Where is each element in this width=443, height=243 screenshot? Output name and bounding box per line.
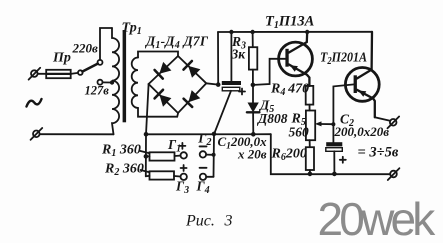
switch contact 127V tap: [98, 80, 103, 85]
node R3 bottom: [251, 83, 256, 88]
resistor R2: [150, 171, 175, 179]
output terminal upper: [388, 117, 400, 129]
fuse Пр: [46, 70, 70, 78]
wiper arrow R5: [315, 121, 334, 126]
wire secondary top to bridge top: [138, 52, 178, 58]
diode bridge frame: [149, 56, 207, 113]
node bridge plus to bus: [144, 132, 149, 137]
plus sign G3: [181, 165, 187, 171]
wire C2 bottom to bus: [333, 151, 335, 174]
node R3 top on rail: [250, 30, 254, 34]
node R1 branch: [144, 154, 149, 159]
minus rail (top): [218, 31, 372, 33]
transformer Tp1 core: [123, 30, 127, 122]
plus sign C1: [239, 89, 245, 95]
callout line R2: [141, 170, 150, 172]
wire terminal to fuse: [38, 73, 47, 75]
diode D2 (top-right): [184, 61, 201, 78]
node T1 collector on rail: [305, 30, 309, 34]
svg-text:20wek: 20wek: [318, 193, 437, 243]
resistor R6: [306, 147, 314, 170]
terminal G2: [200, 151, 206, 157]
capacitor C1: [222, 81, 241, 91]
bus jog down: [271, 134, 390, 174]
switch contact 220V tap: [98, 60, 103, 65]
svg-text:127в: 127в: [85, 84, 110, 98]
diode D3 (bottom-left): [155, 90, 172, 107]
node G2/G4 vertical top: [212, 132, 217, 137]
resistor R4: [306, 86, 314, 105]
svg-text:Рис.: Рис.: [185, 213, 215, 230]
node wiper junction: [331, 122, 335, 126]
switch arm SA: [83, 64, 98, 72]
plus sign G1: [179, 143, 185, 149]
svg-text:3к: 3к: [231, 47, 247, 62]
node primary tap junction: [110, 80, 114, 84]
svg-text:Т1П13А: Т1П13А: [265, 14, 315, 32]
svg-text:200,0х20в: 200,0х20в: [334, 124, 390, 139]
wire G2-G4 vertical: [213, 134, 216, 177]
svg-text:R1 360: R1 360: [101, 143, 141, 160]
resistor R1: [150, 152, 175, 160]
callout line R1: [140, 151, 150, 153]
svg-text:= 3÷5в: = 3÷5в: [358, 144, 399, 160]
zener D5: [247, 85, 260, 134]
wire battery branch vertical: [145, 134, 147, 176]
wire bridge right corner to minus node: [206, 83, 218, 84]
wire fuse to switch pivot: [71, 73, 78, 74]
resistor R5 (variable): [306, 111, 315, 141]
wire T2 emitter to output terminal: [375, 117, 390, 121]
minus sign G4: [200, 167, 207, 169]
svg-text:560: 560: [289, 125, 310, 140]
wire to R1: [146, 155, 150, 157]
wire G4 to vertical: [206, 176, 213, 178]
terminal G3: [181, 174, 187, 180]
wire G2 to node: [206, 154, 214, 156]
input terminal X1 (upper): [29, 68, 41, 80]
transformer Tp1 primary winding: [112, 28, 119, 134]
wire T2 base to wiper node: [333, 84, 354, 124]
svg-text:Г3: Г3: [175, 179, 189, 197]
wire bridge left corner down to plus bus: [146, 84, 149, 134]
node C1 top on rail: [229, 30, 233, 34]
wire C1 bottom lead: [214, 91, 231, 134]
switch pivot contact: [78, 70, 83, 75]
wire 220V tap to primary top: [100, 28, 112, 60]
svg-text:220в: 220в: [72, 41, 99, 56]
wire R1 to G1: [175, 155, 181, 157]
diode D1 (top-left): [155, 62, 172, 79]
terminal G4: [200, 174, 206, 180]
wire R4 to R5: [309, 105, 311, 111]
wire minus node up to rail: [217, 32, 219, 85]
svg-text:Д1-Д4 Д7Г: Д1-Д4 Д7Г: [144, 34, 209, 52]
wire R2 to G3: [174, 175, 180, 178]
node bridge minus: [216, 82, 221, 87]
transformer Tp1 secondary winding: [132, 58, 138, 108]
svg-text:Г4: Г4: [196, 179, 210, 197]
node C2 bottom: [332, 172, 337, 177]
capacitor C2: [326, 142, 343, 151]
node R6 bottom: [308, 172, 313, 177]
svg-text:3: 3: [224, 213, 233, 230]
svg-text:R2 360: R2 360: [104, 162, 144, 179]
svg-text:Пр: Пр: [52, 51, 71, 66]
svg-text:Г2: Г2: [197, 131, 211, 149]
svg-text:Т2П201А: Т2П201А: [320, 48, 367, 67]
wire to R2: [146, 175, 150, 177]
svg-text:х 20в: х 20в: [237, 147, 267, 162]
svg-text:Тр1: Тр1: [122, 21, 142, 38]
wire R3 bottom to node: [252, 70, 254, 85]
label ~ AC: [27, 99, 42, 107]
wire lower input to primary bottom: [40, 133, 114, 135]
node D5 bottom on bus: [251, 132, 256, 137]
plus bus left section: [146, 133, 271, 135]
wire secondary bottom to bridge bottom: [138, 108, 178, 117]
plus sign C2: [340, 157, 346, 163]
transistor T1: [279, 32, 313, 86]
terminal G1: [181, 152, 187, 158]
wire node to T1 base: [253, 59, 286, 85]
wire rail to R3: [252, 32, 254, 47]
minus sign G2: [200, 145, 207, 147]
wire R6 to bus: [309, 170, 311, 174]
transistor T2: [345, 32, 379, 117]
input terminal X2 (lower): [31, 128, 43, 140]
output terminal lower: [388, 168, 400, 180]
wire C1 top lead: [230, 32, 232, 81]
svg-text:R6200: R6200: [271, 147, 307, 164]
wire wiper node down to C2: [332, 124, 334, 142]
svg-text:R4 470: R4 470: [270, 82, 309, 99]
node G2 wire joint: [212, 153, 216, 157]
resistor R3: [249, 47, 257, 69]
svg-text:Д808: Д808: [256, 111, 288, 126]
wire R5 to R6: [309, 140, 311, 147]
diode D4 (bottom-right): [184, 90, 201, 107]
wire 127V tap to primary: [103, 81, 112, 83]
